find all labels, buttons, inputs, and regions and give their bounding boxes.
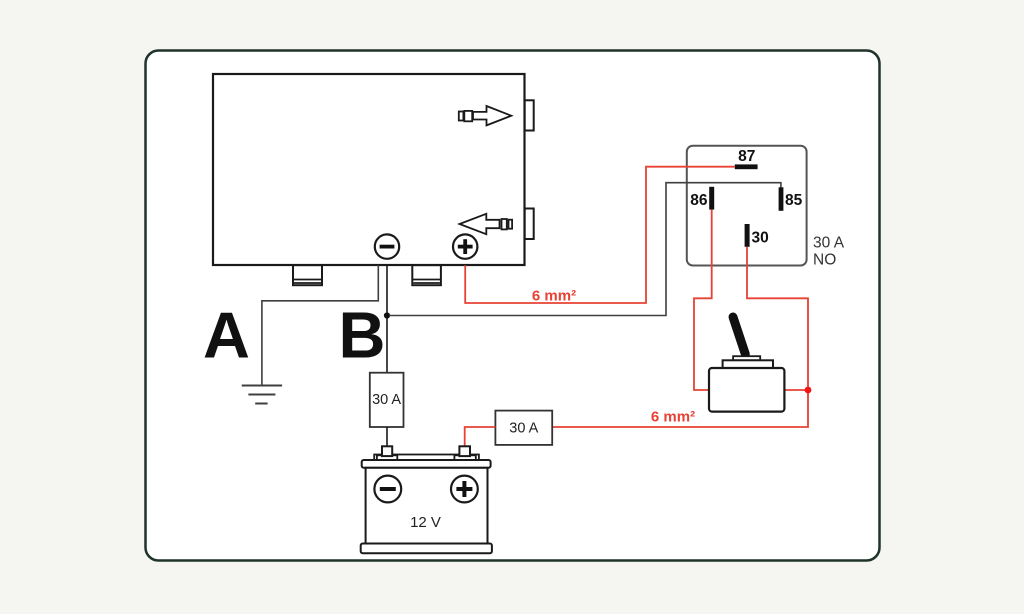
svg-text:NO: NO <box>813 251 836 268</box>
red wire relay 30 to junction <box>747 247 808 390</box>
amp right foot <box>412 265 441 285</box>
relay pin 30 <box>745 224 750 247</box>
svg-text:6 mm²: 6 mm² <box>532 288 576 305</box>
battery plus terminal mark <box>451 476 478 503</box>
svg-text:85: 85 <box>785 192 803 209</box>
wire fuse F1 to battery minus <box>386 427 388 446</box>
svg-text:12 V: 12 V <box>410 514 441 531</box>
junction dot <box>805 387 812 394</box>
battery minus terminal mark <box>374 476 401 503</box>
red wire junction to fuse F2 <box>552 390 808 427</box>
relay pin 87 <box>735 164 758 169</box>
red wire switch to junction <box>784 389 808 391</box>
svg-text:B: B <box>339 299 386 372</box>
node B junction dot <box>384 312 390 318</box>
svg-text:A: A <box>203 299 250 372</box>
input connector (right edge bottom) <box>525 209 534 240</box>
svg-text:30: 30 <box>752 229 769 246</box>
amp minus terminal <box>375 234 399 258</box>
relay pin 86 <box>709 187 714 210</box>
svg-text:30 A: 30 A <box>372 392 401 408</box>
output connector (right edge top) <box>525 100 534 130</box>
relay pin 85 <box>779 187 784 211</box>
output arrow icon (points right) <box>459 106 512 125</box>
amp plus terminal <box>453 234 477 258</box>
fuse F1 30A (vertical) <box>370 373 404 427</box>
wire ground (terminal A) <box>262 265 378 385</box>
svg-text:30 A: 30 A <box>813 234 845 251</box>
wire minus to node B and fuse <box>386 265 388 373</box>
battery BT1 <box>361 446 492 553</box>
toggle switch S1 <box>709 317 784 412</box>
svg-text:6 mm²: 6 mm² <box>651 408 695 425</box>
svg-text:30 A: 30 A <box>509 421 538 437</box>
relay K1 <box>687 146 807 266</box>
amp left foot <box>293 265 322 285</box>
red wire fuse F2 to battery plus <box>465 427 496 446</box>
ground symbol <box>242 386 282 404</box>
outer frame <box>146 51 880 561</box>
red wire amp plus to relay 87 <box>465 167 735 303</box>
red wire relay 86 to switch <box>694 210 712 390</box>
wire node B to relay pin 85 <box>389 183 781 316</box>
svg-text:87: 87 <box>738 148 755 165</box>
input arrow icon (points left) <box>460 214 513 234</box>
amplifier box U1 <box>213 74 525 265</box>
svg-text:86: 86 <box>690 192 708 209</box>
fuse F2 30A (horizontal) <box>495 411 552 445</box>
